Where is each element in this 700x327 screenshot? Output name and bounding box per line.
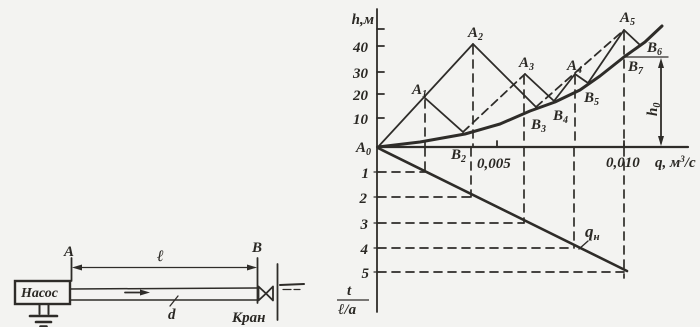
svg-text:d: d	[168, 307, 176, 323]
svg-text:4: 4	[360, 242, 369, 258]
svg-text:5: 5	[362, 266, 370, 282]
svg-text:h,м: h,м	[352, 12, 374, 28]
svg-text:20: 20	[352, 88, 369, 104]
svg-text:40: 40	[352, 40, 369, 56]
svg-text:2: 2	[359, 191, 368, 207]
svg-text:0,005: 0,005	[477, 156, 511, 172]
svg-text:ℓ: ℓ	[156, 248, 164, 265]
svg-text:Кран: Кран	[231, 310, 266, 326]
svg-text:Насос: Насос	[20, 286, 59, 301]
svg-text:10: 10	[353, 112, 369, 128]
svg-text:1: 1	[362, 166, 370, 182]
svg-text:q, м3/с: q, м3/с	[655, 154, 696, 171]
svg-text:B: B	[251, 240, 262, 256]
svg-text:3: 3	[360, 217, 369, 233]
svg-text:A: A	[63, 244, 74, 260]
svg-text:0,010: 0,010	[606, 155, 640, 171]
svg-text:30: 30	[352, 66, 369, 82]
svg-text:ℓ/a: ℓ/a	[338, 302, 357, 318]
